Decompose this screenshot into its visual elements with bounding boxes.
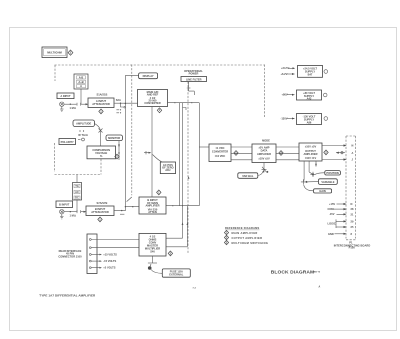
svg-text:+15V: +15V bbox=[329, 202, 335, 206]
box POLARITY bbox=[59, 139, 76, 145]
label OPERATIONAL POWER bbox=[184, 69, 203, 76]
tall external connector bbox=[87, 234, 97, 274]
svg-text:MULTI/OHM SWITCHING: MULTI/OHM SWITCHING bbox=[232, 241, 269, 245]
svg-text:TYPE 1A7 DIFFERENTIAL AMPLIFIE: TYPE 1A7 DIFFERENTIAL AMPLIFIER bbox=[39, 293, 96, 297]
B-channel mode stack box bbox=[73, 183, 82, 201]
svg-text:N: N bbox=[351, 202, 353, 206]
connector power stubs bbox=[91, 253, 117, 270]
svg-text:AMPLIFIER: AMPLIFIER bbox=[146, 204, 160, 208]
diamond ref right of comparison bbox=[115, 154, 119, 159]
mode symbols column bbox=[78, 130, 88, 141]
svg-text:±10V ±5V: ±10V ±5V bbox=[305, 145, 317, 149]
svg-text:POSITION: POSITION bbox=[326, 171, 339, 175]
diamond ref after data amp bbox=[279, 151, 283, 156]
switch wiper diagonal bbox=[127, 197, 132, 202]
label EXTERNAL CONNECTOR bbox=[58, 249, 82, 258]
wire stack B bbox=[76, 175, 78, 212]
wire monitor down bbox=[118, 141, 120, 160]
box B INPUT OF MAIN AMPLIFIER bbox=[139, 197, 166, 214]
svg-text:VAR BAL: VAR BAL bbox=[242, 174, 254, 178]
svg-text:MODE: MODE bbox=[262, 139, 270, 143]
wires data amp to output amp bbox=[276, 147, 299, 160]
line selector jog bbox=[189, 82, 195, 95]
svg-text:S2A: S2A bbox=[116, 98, 121, 102]
ps1 ref circle bbox=[324, 70, 328, 74]
dashed vertical x131 bbox=[131, 65, 133, 196]
svg-text:+15 VOLTS: +15 VOLTS bbox=[103, 253, 117, 257]
svg-text:A86: A86 bbox=[307, 120, 312, 124]
svg-text:+80V: +80V bbox=[282, 93, 288, 97]
curve amplitude to junction bbox=[95, 124, 103, 147]
box cal adjust bbox=[160, 162, 175, 174]
legend REFERENCE DIAGRAMS bbox=[224, 226, 268, 245]
power supply box 3 bbox=[297, 114, 322, 125]
strip lower signal rows bbox=[328, 202, 354, 236]
svg-text:A INPUT: A INPUT bbox=[60, 94, 71, 98]
var bal control bbox=[238, 163, 268, 179]
strip caption bbox=[334, 240, 371, 250]
svg-text:TG: TG bbox=[75, 184, 79, 188]
rounded box AMPLITUDE bbox=[73, 120, 95, 127]
connector wires to ohms converter bbox=[91, 240, 139, 248]
diamond ref under converter bbox=[157, 108, 161, 113]
svg-text:±1 VDC: ±1 VDC bbox=[215, 146, 224, 150]
svg-text:N: N bbox=[352, 144, 354, 148]
B input connector bbox=[60, 210, 64, 214]
box DATA OUTPUT AMPLIFIER bbox=[252, 144, 276, 163]
svg-text:A-B: A-B bbox=[79, 75, 84, 79]
output amp front panel controls bbox=[301, 161, 317, 185]
rounded box POSITION bbox=[316, 171, 341, 175]
output wires to connector bbox=[322, 144, 354, 162]
diamond ref 1 under A attenuator bbox=[99, 109, 103, 114]
wire B attenuator to B amplifier bbox=[114, 206, 139, 214]
diamond ref under B attenuator bbox=[98, 217, 102, 222]
svg-text:AMPLIFIER: AMPLIFIER bbox=[257, 152, 271, 156]
diamond ref above B amplifier bbox=[157, 190, 161, 195]
A-channel mode stack box bbox=[74, 74, 88, 89]
svg-text:AMPLITUDE: AMPLITUDE bbox=[76, 122, 91, 126]
junction dot bus crossing bbox=[125, 103, 126, 104]
rounded box MONITOR bbox=[106, 135, 123, 141]
svg-text:P100: P100 bbox=[349, 246, 356, 250]
svg-text:S40: S40 bbox=[150, 250, 155, 254]
box B INPUT bbox=[56, 201, 73, 208]
interconnecting board dashed strip bbox=[346, 136, 356, 239]
board outline dashed top bbox=[55, 64, 265, 66]
svg-text:POWER: POWER bbox=[189, 72, 199, 76]
svg-text:1 MΩ: 1 MΩ bbox=[70, 213, 76, 217]
svg-text:GND: GND bbox=[328, 232, 334, 236]
wire A input to attenuator bbox=[64, 103, 88, 106]
ps2 ref circle bbox=[323, 93, 327, 97]
svg-text:B47: B47 bbox=[308, 72, 313, 76]
box MULTI/OHM bbox=[42, 47, 67, 58]
converter output bus bbox=[166, 102, 209, 247]
svg-text:DC: DC bbox=[75, 196, 79, 200]
box OUTPUT AMPLIFIER bbox=[299, 143, 322, 161]
svg-text:±10 VDC: ±10 VDC bbox=[215, 154, 226, 158]
svg-text:A: A bbox=[319, 286, 321, 289]
rounded box FUSE bbox=[162, 269, 190, 277]
board outline dashed left bbox=[54, 65, 56, 81]
svg-text:AMPLIFIER: AMPLIFIER bbox=[304, 152, 318, 156]
svg-text:+5 VOLTS: +5 VOLTS bbox=[103, 266, 115, 270]
svg-text:B INPUT: B INPUT bbox=[59, 203, 70, 207]
svg-text:+6.2V: +6.2V bbox=[281, 72, 288, 76]
svg-text:BLOCK DIAGRAM: BLOCK DIAGRAM bbox=[271, 270, 314, 276]
svg-text:VARIABLE: VARIABLE bbox=[321, 180, 334, 184]
svg-text:W TG/Ω: W TG/Ω bbox=[78, 133, 87, 137]
svg-text:POLARITY: POLARITY bbox=[61, 140, 74, 144]
wire display to bus bbox=[125, 76, 138, 207]
board outline dashed right drop bbox=[264, 65, 266, 118]
svg-text:COM: COM bbox=[328, 207, 334, 211]
wire B input to attenuator bbox=[64, 210, 86, 213]
dashed vertical x101 bbox=[100, 159, 102, 175]
svg-text:CONVERTER: CONVERTER bbox=[212, 150, 228, 154]
svg-text:ATTENUATOR: ATTENUATOR bbox=[91, 210, 109, 214]
wire attenuator to main converter bbox=[115, 103, 138, 114]
diamond ref 3 top-left bbox=[68, 50, 73, 55]
box B INPUT ATTENUATOR bbox=[86, 206, 114, 216]
wires converter to output amp bbox=[231, 147, 252, 160]
svg-text:-15V: -15V bbox=[329, 212, 335, 216]
main vertical bus to B amplifier bbox=[144, 107, 152, 198]
svg-text:CONVERTER: CONVERTER bbox=[144, 101, 160, 105]
svg-text:AC: AC bbox=[75, 190, 79, 194]
svg-text:EXTERNAL: EXTERNAL bbox=[169, 273, 183, 277]
A input connector bbox=[60, 102, 64, 106]
rounded box GAIN bbox=[304, 185, 332, 193]
svg-text:MULTI/OHM: MULTI/OHM bbox=[47, 51, 62, 55]
svg-text:ATTENUATOR: ATTENUATOR bbox=[92, 102, 110, 106]
board outline dashed bottom-left bbox=[55, 174, 102, 176]
svg-text:MAIN AMPLIFIER: MAIN AMPLIFIER bbox=[232, 231, 258, 235]
svg-text:DISPLAY: DISPLAY bbox=[143, 74, 154, 78]
ground B bbox=[60, 214, 64, 219]
svg-text:MONITOR: MONITOR bbox=[108, 136, 120, 140]
svg-text:ADJ: ADJ bbox=[165, 168, 171, 172]
rounded box VARIABLE bbox=[308, 179, 338, 185]
svg-text:REV 70: REV 70 bbox=[313, 272, 321, 274]
wire stack to input line bbox=[80, 89, 82, 104]
svg-text:ATTEN: ATTEN bbox=[148, 210, 157, 214]
power supply box 2 bbox=[297, 90, 322, 101]
ps2 input label bbox=[282, 93, 295, 97]
diamond ref between bbox=[234, 151, 238, 156]
svg-text:±10V ±1V: ±10V ±1V bbox=[305, 156, 317, 160]
diamond ref right of ohms bbox=[168, 251, 172, 256]
dashed line-power vertical x188 bbox=[187, 82, 189, 255]
box LINE AMP converter bbox=[209, 144, 231, 162]
curve to cal box bbox=[153, 155, 163, 163]
svg-text:1 MΩ: 1 MΩ bbox=[70, 106, 76, 110]
svg-text:LOGIC: LOGIC bbox=[328, 221, 336, 225]
ps3 ref circle bbox=[324, 117, 328, 121]
ps3 input label bbox=[281, 116, 295, 120]
box A INPUT ATTENUATOR bbox=[88, 98, 114, 108]
svg-text:GAIN: GAIN bbox=[319, 189, 326, 193]
power supply box 1 bbox=[298, 66, 323, 78]
box LINE FILTER bbox=[181, 77, 207, 82]
ps1 input labels bbox=[281, 66, 296, 76]
svg-text:OUTPUT AMPLIFIER: OUTPUT AMPLIFIER bbox=[232, 236, 263, 240]
box OHMS CONVERTER bbox=[139, 233, 166, 256]
ohms output jack bbox=[148, 256, 157, 270]
svg-text:LINE FILTER: LINE FILTER bbox=[186, 77, 202, 81]
ground A bbox=[60, 106, 64, 111]
svg-text:REFERENCE DIAGRAMS: REFERENCE DIAGRAMS bbox=[225, 226, 260, 230]
svg-text:A: A bbox=[352, 151, 354, 155]
svg-text:A+B: A+B bbox=[78, 80, 83, 84]
svg-text:+24.5V: +24.5V bbox=[281, 66, 290, 70]
svg-text:A43: A43 bbox=[307, 97, 312, 101]
box A INPUT bbox=[57, 93, 74, 99]
svg-text:±10V ±5V: ±10V ±5V bbox=[258, 156, 270, 160]
box COMPARISON VOLTAGE bbox=[87, 146, 116, 159]
svg-text:S1A/S1B: S1A/S1B bbox=[97, 93, 108, 97]
svg-text:A: A bbox=[80, 84, 82, 88]
diamond ref right of output amp bbox=[324, 150, 328, 155]
svg-text:S7A/S7B: S7A/S7B bbox=[97, 201, 108, 205]
box MAIN A/D CONVERTER bbox=[138, 90, 168, 107]
svg-text:CONNECTOR J100: CONNECTOR J100 bbox=[58, 254, 82, 258]
arc fuse to jack bbox=[151, 270, 162, 274]
box DISPLAY bbox=[139, 73, 158, 79]
svg-text:-15 VOLTS: -15 VOLTS bbox=[103, 259, 116, 263]
svg-text:-130V: -130V bbox=[281, 116, 288, 120]
